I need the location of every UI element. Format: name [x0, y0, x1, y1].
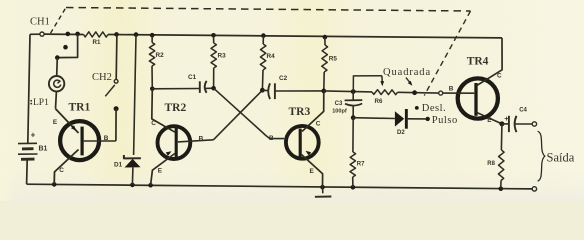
svg-text:C: C: [497, 73, 502, 80]
svg-text:R4: R4: [267, 53, 276, 60]
svg-text:TR4: TR4: [467, 55, 489, 67]
svg-text:CH2: CH2: [92, 72, 112, 83]
svg-text:Pulso: Pulso: [432, 115, 458, 126]
svg-text:Desl.: Desl.: [422, 103, 446, 114]
svg-text:Saída: Saída: [547, 150, 575, 164]
svg-text:C: C: [151, 120, 156, 127]
svg-text:100pf: 100pf: [332, 108, 347, 114]
svg-text:E: E: [487, 117, 492, 124]
svg-text:E: E: [158, 168, 163, 175]
svg-text:LP1: LP1: [33, 98, 49, 108]
svg-text:D2: D2: [397, 130, 405, 136]
svg-text:C2: C2: [279, 75, 288, 82]
svg-text:C4: C4: [519, 107, 527, 113]
svg-text:R5: R5: [329, 55, 338, 62]
svg-text:TR2: TR2: [165, 102, 187, 114]
svg-text:B: B: [449, 86, 454, 93]
svg-text:B: B: [199, 135, 204, 142]
svg-text:R6: R6: [375, 98, 383, 105]
svg-text:C: C: [316, 121, 321, 128]
svg-text:R8: R8: [487, 161, 495, 167]
svg-text:C1: C1: [188, 74, 197, 81]
svg-text:C: C: [59, 167, 64, 174]
svg-text:E: E: [310, 168, 315, 175]
svg-text:R3: R3: [218, 53, 227, 60]
svg-text:C3: C3: [335, 101, 343, 107]
svg-text:TR3: TR3: [289, 106, 311, 118]
svg-text:E: E: [53, 119, 58, 126]
svg-text:Quadrada: Quadrada: [383, 67, 431, 78]
svg-text:B: B: [269, 135, 274, 142]
svg-text:+: +: [31, 131, 36, 140]
svg-text:R7: R7: [357, 161, 365, 167]
svg-text:CH1: CH1: [30, 17, 50, 28]
svg-text:B: B: [104, 135, 109, 142]
svg-text:B1: B1: [39, 146, 48, 153]
svg-text:R2: R2: [156, 52, 165, 59]
svg-text:D1: D1: [114, 161, 123, 168]
svg-text:R1: R1: [93, 39, 101, 46]
svg-text:TR1: TR1: [69, 101, 91, 113]
